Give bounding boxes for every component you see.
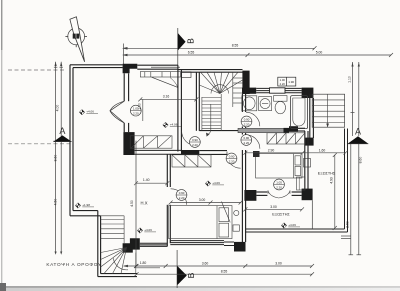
svg-text:3.16: 3.16 xyxy=(163,95,170,99)
bottom dimension line 1 xyxy=(123,264,314,268)
bottom dimension line 2 xyxy=(135,272,315,276)
bedroom3 bed xyxy=(256,154,302,178)
svg-text:3.60: 3.60 xyxy=(202,261,209,265)
bedroom1 closet strip xyxy=(140,72,180,77)
svg-text:1.60: 1.60 xyxy=(319,148,326,152)
bedroom3 bottom wall xyxy=(244,190,256,201)
bedroom3 entry door arc xyxy=(246,135,260,149)
svg-text:3.00: 3.00 xyxy=(275,261,282,265)
bedroom2 nightstand xyxy=(234,210,239,215)
svg-text:2.20: 2.20 xyxy=(276,186,282,190)
bedroom3 balcony double door xyxy=(268,190,290,198)
level marker living room xyxy=(79,110,98,115)
door label bedroom2 xyxy=(226,153,237,164)
bathroom fixtures xyxy=(242,96,308,129)
svg-text:2.20: 2.20 xyxy=(280,82,286,86)
hall door arc xyxy=(182,131,197,146)
bedroom2 left wall xyxy=(167,155,170,247)
svg-text:1.40: 1.40 xyxy=(143,178,150,182)
straight run treads xyxy=(202,97,221,99)
svg-text:2.20: 2.20 xyxy=(133,112,139,116)
level markers xyxy=(75,110,300,234)
door label bedroom3 xyxy=(241,135,252,146)
bathroom top wall xyxy=(242,88,256,94)
svg-text:1.00: 1.00 xyxy=(280,78,286,82)
svg-text:1.80: 1.80 xyxy=(140,261,147,265)
top dimension line 1 (8.55) xyxy=(122,46,317,50)
balcony inner west edge xyxy=(311,200,313,229)
level marker H.X xyxy=(137,228,156,233)
svg-text:4.50: 4.50 xyxy=(54,199,58,206)
stairwell top wall xyxy=(178,70,243,131)
exterior stair left wall xyxy=(97,211,99,277)
svg-text:+1.98: +1.98 xyxy=(82,203,90,207)
svg-text:4.93: 4.93 xyxy=(329,177,333,184)
svg-text:0.90: 0.90 xyxy=(244,118,250,122)
paper edge left xyxy=(1,0,2,291)
central vertical wall (stair/bath/bedrooms) xyxy=(242,94,245,242)
svg-text:6.55: 6.55 xyxy=(188,50,195,54)
dim 1.80 bottom xyxy=(136,267,160,269)
door label bedroom2 left xyxy=(176,190,187,201)
svg-text:+4.06: +4.06 xyxy=(212,181,220,185)
svg-text:0.90: 0.90 xyxy=(243,136,249,140)
bathroom label boxes xyxy=(278,77,296,86)
svg-text:2.20: 2.20 xyxy=(179,196,185,200)
black column top-left of bedroom1 xyxy=(123,64,138,74)
black column below door xyxy=(123,132,134,155)
north arrow xyxy=(65,17,87,62)
main stair winders and runs xyxy=(199,72,242,136)
svg-text:+4.06: +4.06 xyxy=(144,228,152,232)
bedroom1 right wall xyxy=(178,65,191,151)
bedroom3 top wall continuation + column xyxy=(289,128,305,131)
external stair top right xyxy=(312,94,344,127)
top-right dimension pair (1.10) xyxy=(341,62,361,255)
svg-text:A: A xyxy=(59,126,65,136)
svg-text:5.00: 5.00 xyxy=(316,50,323,54)
direction arrow xyxy=(210,104,212,130)
bathtub xyxy=(291,96,308,129)
svg-text:+4.06: +4.06 xyxy=(170,122,178,126)
level marker landing xyxy=(75,203,94,208)
svg-text:8.60: 8.60 xyxy=(359,157,363,164)
interior dim H.X xyxy=(134,181,169,185)
level marker balcony xyxy=(281,223,300,228)
black L column and stair newel xyxy=(123,238,140,252)
svg-text:2.90: 2.90 xyxy=(268,148,275,152)
shower tray xyxy=(242,96,257,111)
interior dim bedroom3 top xyxy=(243,151,347,155)
svg-text:3.00: 3.00 xyxy=(270,205,277,209)
svg-text:3.00: 3.00 xyxy=(199,198,206,202)
level marker bedroom1 xyxy=(163,122,182,127)
winder fan xyxy=(101,248,127,253)
bedroom1 door leaf diagonal xyxy=(152,77,178,87)
svg-text:1.50: 1.50 xyxy=(138,103,142,110)
double swing door living room xyxy=(110,101,124,123)
svg-text:0.90: 0.90 xyxy=(192,138,198,142)
black column stair/bath junction xyxy=(242,71,249,94)
svg-text:2.20: 2.20 xyxy=(229,160,235,164)
bedroom3 desk xyxy=(297,177,306,190)
svg-text:0.90: 0.90 xyxy=(179,191,185,195)
door label bathroom xyxy=(241,116,252,127)
washbasin xyxy=(259,97,272,111)
svg-text:2.20: 2.20 xyxy=(243,141,249,145)
left dimension chain xyxy=(53,62,63,255)
door label balcony door xyxy=(274,179,285,190)
svg-text:8.55: 8.55 xyxy=(221,270,228,274)
svg-text:2.20: 2.20 xyxy=(244,123,250,127)
svg-text:8.55: 8.55 xyxy=(232,44,239,48)
svg-text:1.10: 1.10 xyxy=(348,76,352,83)
bedroom2 bottom wall window xyxy=(170,241,234,246)
dashed axis line upper left xyxy=(8,69,64,71)
interior dim bedroom2 xyxy=(169,201,243,205)
main block bottom wall left window xyxy=(140,243,168,246)
stairwell left wall xyxy=(195,72,197,131)
interior dim bedroom3 bottom xyxy=(243,207,304,211)
svg-text:1.90: 1.90 xyxy=(288,80,294,84)
circle door labels xyxy=(130,105,284,200)
bedroom3 wardrobe hatch xyxy=(267,133,305,144)
svg-text:ΕΞΩΣΤΗΣ: ΕΞΩΣΤΗΣ xyxy=(318,171,336,175)
svg-text:2.20: 2.20 xyxy=(192,143,198,147)
svg-text:4.00: 4.00 xyxy=(56,105,60,112)
svg-text:+4.06: +4.06 xyxy=(86,110,94,114)
svg-text:8.60: 8.60 xyxy=(54,155,58,162)
bathroom right wall xyxy=(310,94,314,138)
bedroom2 wardrobe hatch xyxy=(172,155,211,167)
level marker bedroom2 xyxy=(205,181,224,186)
door label living xyxy=(130,105,141,116)
bedroom3 nightstand xyxy=(253,151,260,157)
svg-text:ΚΑΤΟΨΗ Α ΟΡΟΦΟΥ: ΚΑΤΟΨΗ Α ΟΡΟΦΟΥ xyxy=(46,262,102,267)
stairwell bottom xyxy=(199,130,242,132)
svg-text:1.05: 1.05 xyxy=(276,181,282,185)
door label hall xyxy=(190,137,201,148)
bedroom2 door arc xyxy=(171,189,187,205)
svg-text:B: B xyxy=(186,38,196,44)
corridor bottom wall / bedroom2 top wall xyxy=(199,151,227,155)
bedroom2 entry door arc xyxy=(227,155,241,168)
exterior stair bottom wall xyxy=(98,276,137,278)
gray half wall strip xyxy=(238,128,288,132)
svg-text:4.50: 4.50 xyxy=(130,200,134,207)
interior dim bedroom1 xyxy=(138,97,198,121)
winder radiating treads xyxy=(199,85,220,94)
bedroom2 bed xyxy=(169,202,232,239)
svg-text:B: B xyxy=(186,272,196,278)
bathroom door arc xyxy=(246,112,260,126)
svg-text:ΕΞΩΣΤΗΣ: ΕΞΩΣΤΗΣ xyxy=(272,212,290,216)
section marker B bottom xyxy=(177,250,187,288)
top dimension line 2 (6.55 / 5.00) xyxy=(122,53,393,57)
living/bedroom1 dividing wall xyxy=(124,73,128,132)
exterior stair treads lower left xyxy=(101,216,136,274)
svg-text:+4.06: +4.06 xyxy=(288,223,296,227)
paper edge bottom xyxy=(0,286,400,288)
left wing bottom wall xyxy=(70,215,101,217)
bedroom1 south wall xyxy=(135,150,181,154)
section marker A right xyxy=(348,136,369,144)
H.X wardrobe hatch (bedroom1 south) xyxy=(130,136,172,148)
top dimension reference line xyxy=(123,44,125,65)
right run treads xyxy=(233,77,243,79)
svg-text:0.90: 0.90 xyxy=(229,155,235,159)
section marker B top xyxy=(178,28,186,66)
svg-text:H.X: H.X xyxy=(141,201,148,206)
svg-text:2.90: 2.90 xyxy=(346,221,350,228)
balcony railing right xyxy=(246,129,348,233)
toilet xyxy=(274,96,287,102)
bedroom3 left wall lower part is central wall; bedroom3 right wall xyxy=(305,131,308,190)
balcony inner vertical dim xyxy=(333,153,337,230)
section marker A left xyxy=(54,135,72,141)
dashed axis line lower left xyxy=(8,143,71,145)
balcony railing bottom xyxy=(246,231,348,233)
exterior wall: living room left xyxy=(70,65,137,277)
svg-text:A: A xyxy=(355,127,361,137)
H.X west boundary line xyxy=(135,141,137,266)
bedroom1 top wall with window xyxy=(137,65,180,69)
living room top wall xyxy=(70,64,123,66)
